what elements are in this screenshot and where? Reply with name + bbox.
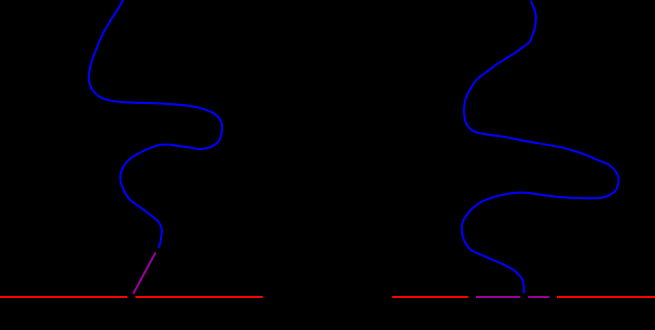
right surface line segment A (red) — [392, 296, 468, 298]
left surface line segment B (red) — [135, 296, 262, 298]
left sticker segment (purple) — [133, 253, 155, 294]
right adsorbed sticker segment A (purple) — [476, 296, 520, 298]
right adsorbed sticker segment B (purple) — [528, 296, 549, 298]
right polymer chain curve — [462, 2, 619, 293]
right surface line segment B (red) — [557, 296, 655, 298]
left surface line segment A (red) — [0, 296, 127, 298]
left polymer chain curve — [89, 0, 222, 247]
